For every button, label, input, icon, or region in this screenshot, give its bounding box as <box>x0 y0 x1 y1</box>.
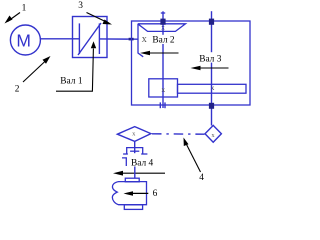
label 2 <box>15 56 51 94</box>
shaft into drum <box>134 167 136 179</box>
worm pinion line <box>138 24 143 57</box>
svg-text:x: x <box>142 34 147 45</box>
gear block on shaft 2 <box>149 79 178 97</box>
motor M1 <box>10 25 40 55</box>
bearing square shaft3 top <box>209 19 214 25</box>
bearing ticks shaft2 bottom <box>159 102 161 108</box>
small hook mark left of Вал 4 <box>122 158 126 166</box>
svg-text:M: M <box>16 30 31 50</box>
bearing square shaft3 bottom <box>209 103 214 109</box>
wire: variator to gearbox input shaft <box>99 38 138 40</box>
label 1 <box>5 4 27 24</box>
coupling flat diamond <box>117 127 150 142</box>
screw-nut bracket <box>123 148 147 154</box>
svg-text:2: 2 <box>15 84 20 94</box>
wire: motor shaft to belt variator <box>40 38 79 40</box>
long gear (rack) rectangle <box>178 84 247 93</box>
bearing square shaft2 top <box>160 19 165 25</box>
belt variator box <box>73 17 108 58</box>
drum top flange <box>125 178 139 182</box>
arrow for 6 <box>129 192 148 194</box>
worm wheel (trapezoid) on shaft 2 <box>138 24 186 32</box>
drum body with wavy left edge <box>112 182 146 205</box>
arrow for Вал 3 <box>196 67 229 69</box>
label Вал 1 with pointer <box>56 41 96 91</box>
svg-text:4: 4 <box>199 173 204 183</box>
coupling diamond right <box>205 125 221 142</box>
svg-text:1: 1 <box>22 4 27 14</box>
dash-dot link <box>152 133 205 135</box>
shaft from diamond down to screw bracket <box>134 141 136 153</box>
svg-text:Вал 1: Вал 1 <box>60 77 83 87</box>
label 4 <box>184 138 205 184</box>
gearbox housing <box>132 21 251 105</box>
label 3 <box>78 1 112 24</box>
svg-text:x: x <box>161 85 165 94</box>
arrow for Вал 2 <box>146 52 179 54</box>
svg-text:Вал 2: Вал 2 <box>152 36 175 46</box>
drum bottom flange <box>124 205 142 210</box>
arrow for Вал 4 <box>119 172 165 174</box>
top tick of shaft 2 <box>161 12 165 14</box>
shaft Вал 2 vertical <box>162 11 164 108</box>
svg-text:Вал 3: Вал 3 <box>199 54 222 64</box>
bearing on input shaft at housing wall <box>129 38 134 41</box>
svg-text:6: 6 <box>153 189 158 199</box>
shaft Вал 3 vertical <box>211 11 213 125</box>
svg-text:3: 3 <box>78 1 83 11</box>
